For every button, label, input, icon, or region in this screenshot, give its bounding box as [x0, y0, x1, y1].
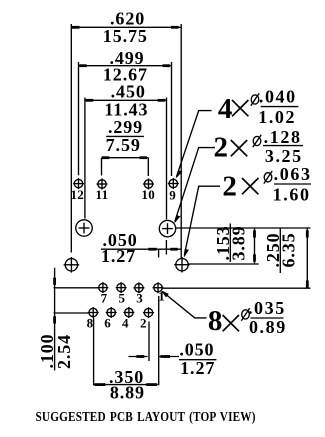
pad 6 — [104, 307, 117, 331]
extension line .499 right — [171, 62, 173, 176]
svg-text:2: 2 — [140, 316, 147, 331]
svg-text:9: 9 — [169, 188, 176, 203]
pad 12 — [70, 178, 84, 202]
svg-text:.450: .450 — [111, 82, 146, 102]
extension top right horizontal — [176, 227, 311, 229]
svg-text:1.60: 1.60 — [273, 184, 311, 204]
dimension .250/6.35 vertical — [263, 228, 309, 288]
svg-text:8: 8 — [87, 316, 94, 331]
svg-text:0.89: 0.89 — [249, 317, 287, 337]
dimension .100/2.54 vertical — [37, 268, 74, 371]
pad 10 — [141, 179, 155, 203]
svg-text:.050: .050 — [179, 340, 214, 360]
extension line .299 right — [147, 158, 149, 176]
row extension left upper — [54, 287, 99, 289]
hole small lower right — [174, 257, 190, 273]
svg-text:7: 7 — [101, 291, 108, 306]
pad 9 — [168, 178, 179, 203]
mounting hole large upper right — [159, 220, 175, 236]
pad 11 — [96, 179, 109, 203]
extension bottom right horizontal — [162, 287, 310, 289]
svg-text:7.59: 7.59 — [106, 135, 141, 155]
mounting hole large upper left — [76, 220, 92, 236]
svg-text:12: 12 — [70, 187, 84, 202]
svg-text:.063: .063 — [274, 164, 312, 184]
extension line .620 right — [180, 24, 182, 258]
pad 2 — [140, 307, 154, 330]
svg-text:11: 11 — [96, 187, 109, 202]
pad 5 — [116, 282, 127, 305]
svg-text:.040: .040 — [259, 86, 297, 106]
hole small lower left — [64, 257, 80, 273]
svg-text:6: 6 — [104, 316, 111, 331]
label 4x holes — [176, 86, 299, 178]
svg-text:5: 5 — [118, 291, 125, 306]
dimension .350/8.89 — [94, 367, 158, 402]
pad 7 — [97, 282, 108, 305]
extension line .499 left — [78, 62, 80, 175]
extension line .450 left — [84, 98, 86, 219]
svg-text:SUGGESTED PCB LAYOUT (TOP VIEW: SUGGESTED PCB LAYOUT (TOP VIEW) — [36, 409, 256, 424]
extension line pad8 down — [93, 318, 95, 386]
label 2x holes 3.25 — [174, 127, 303, 224]
row extension left lower — [54, 312, 90, 314]
pad 3 — [133, 282, 144, 305]
svg-text:2.54: 2.54 — [54, 334, 74, 369]
pad 4 — [122, 307, 134, 331]
svg-text:8: 8 — [208, 305, 223, 337]
label 8x holes 0.89 — [161, 290, 287, 337]
pad 8 — [87, 307, 99, 331]
extension line pad1 down — [158, 296, 160, 385]
svg-text:3: 3 — [136, 291, 143, 306]
svg-text:8.89: 8.89 — [110, 382, 145, 402]
svg-text:2: 2 — [214, 132, 229, 164]
svg-text:4: 4 — [122, 316, 129, 331]
extension line .450 right — [166, 98, 168, 220]
svg-text:3.89: 3.89 — [228, 225, 248, 260]
dimension .050/1.27 upper — [101, 230, 181, 266]
svg-text:1.27: 1.27 — [180, 358, 215, 378]
svg-text:4: 4 — [218, 93, 233, 125]
svg-text:6.35: 6.35 — [278, 232, 298, 267]
svg-text:3.25: 3.25 — [265, 146, 303, 166]
dimension .153/3.89 vertical — [213, 224, 256, 265]
label 2x holes 1.60 — [184, 164, 312, 258]
extension mid right horizontal — [188, 263, 258, 265]
svg-text:15.75: 15.75 — [103, 26, 148, 46]
dimension .499/12.67 — [79, 48, 172, 84]
svg-text:2: 2 — [222, 171, 237, 203]
dimension .450/11.43 — [85, 82, 167, 120]
dimension .050/1.27 lower — [129, 340, 217, 379]
extension line .299 left — [101, 158, 103, 176]
extension line .620 left — [70, 24, 72, 253]
svg-text:.128: .128 — [264, 127, 302, 147]
dimension .620/15.75 top — [71, 9, 181, 46]
svg-text:1.02: 1.02 — [258, 107, 296, 127]
dimension .299/7.59 — [102, 117, 149, 159]
svg-text:.035: .035 — [248, 298, 286, 318]
extension line pad2 down — [148, 322, 150, 362]
svg-text:10: 10 — [141, 187, 155, 202]
pad 1 — [153, 282, 166, 303]
